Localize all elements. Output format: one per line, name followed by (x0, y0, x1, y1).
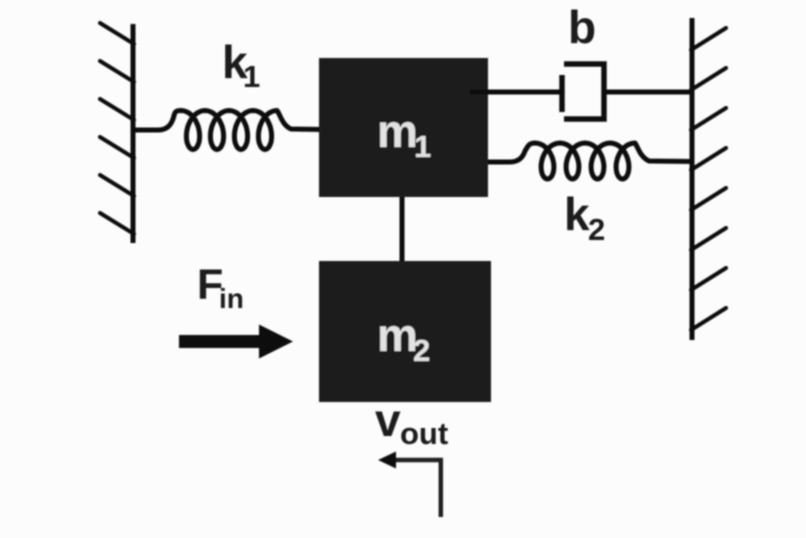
spring k2 (488, 143, 692, 179)
left wall (131, 24, 136, 243)
svg-text:out: out (400, 416, 448, 451)
right wall (690, 18, 695, 340)
damper wire left (470, 90, 560, 95)
left wall hatching (100, 23, 134, 234)
svg-text:k: k (564, 188, 590, 240)
damper b cylinder cup (564, 64, 604, 119)
svg-text:m: m (377, 105, 418, 157)
label Fin (197, 261, 244, 314)
svg-text:m: m (377, 309, 418, 361)
label vout (375, 394, 448, 451)
svg-text:1: 1 (243, 59, 260, 94)
label b (568, 1, 596, 53)
right wall hatching (691, 28, 726, 330)
damper wire right (604, 90, 692, 95)
vout arrow horizontal and vertical (394, 460, 441, 517)
svg-text:b: b (568, 1, 596, 53)
mass m2 (319, 261, 491, 402)
svg-text:in: in (219, 283, 244, 314)
force arrow Fin (179, 325, 293, 359)
vout arrowhead (378, 452, 396, 469)
connecting rod m1-m2 (400, 197, 405, 261)
mass m1 (319, 58, 488, 197)
svg-text:1: 1 (414, 129, 431, 164)
spring k1 (133, 111, 352, 150)
label k1 (222, 36, 260, 94)
label k2 (564, 188, 605, 247)
damper b piston (559, 75, 565, 112)
label m1 (377, 105, 431, 164)
svg-text:2: 2 (413, 333, 430, 368)
svg-text:v: v (375, 394, 401, 446)
label m2 (377, 309, 430, 368)
svg-text:2: 2 (588, 212, 605, 247)
